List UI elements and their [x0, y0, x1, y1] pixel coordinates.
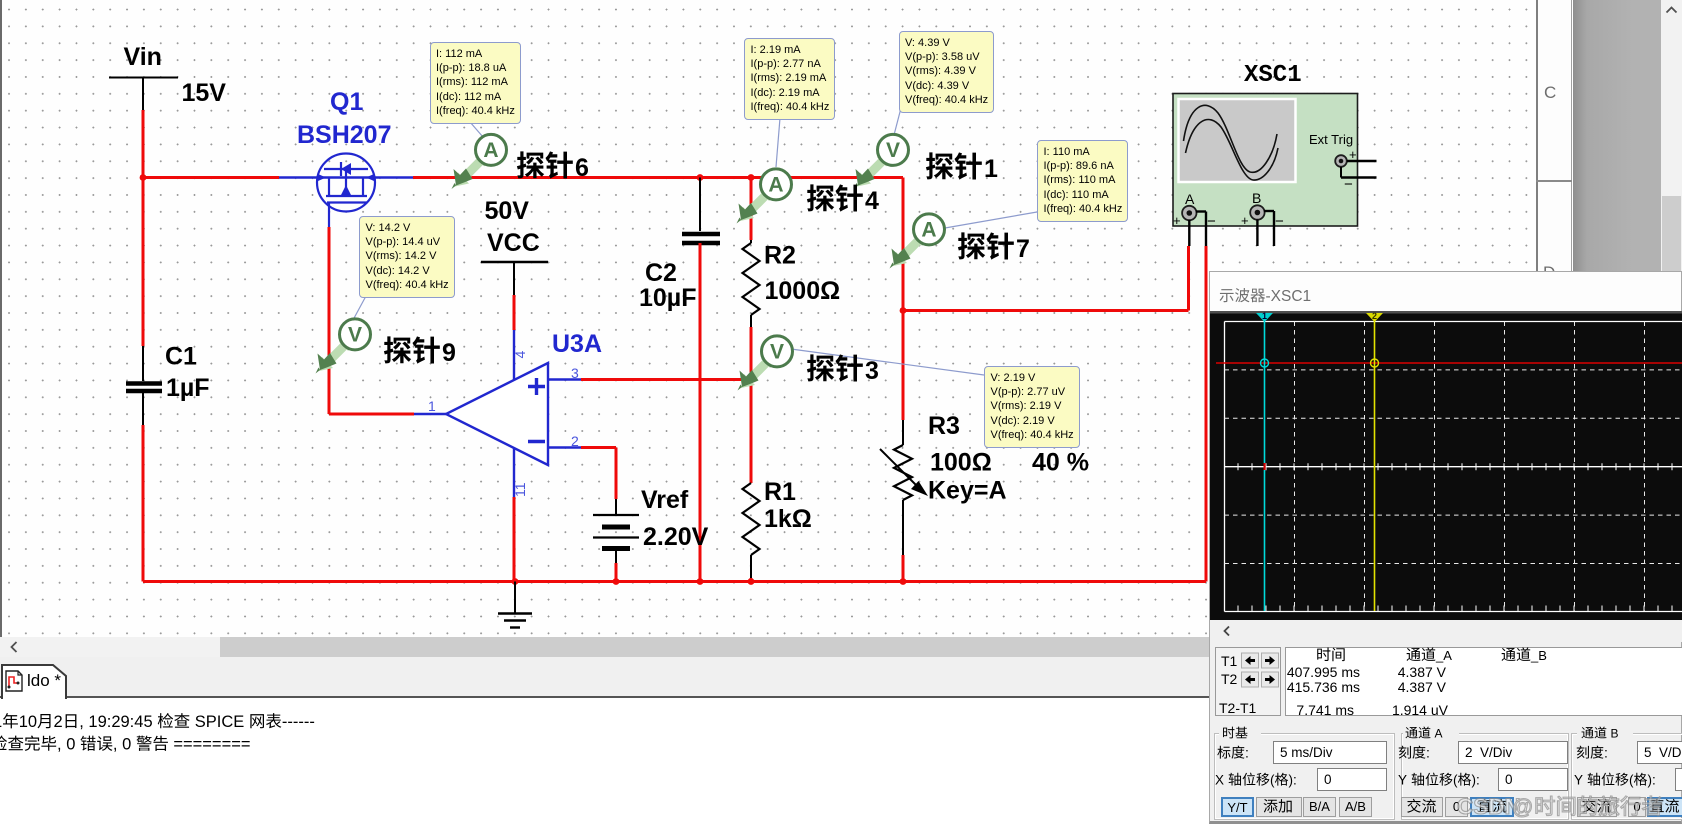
sheet border strip: [1536, 0, 1572, 271]
svg-text:X: X: [1215, 773, 1224, 788]
wire top rail to C2: [697, 174, 704, 231]
svg-text:):: ):: [1289, 773, 1297, 788]
wire scope node to R3: [902, 311, 905, 446]
power source Vin: [109, 78, 178, 111]
wire op-amp pin 11 to ground rail: [513, 497, 516, 582]
svg-text:4: 4: [865, 187, 879, 215]
label C1: [165, 343, 197, 371]
svg-text:-XSC1: -XSC1: [1266, 288, 1312, 305]
probe label 7: [958, 232, 1030, 263]
svg-text:1: 1: [0, 713, 2, 731]
svg-text:@: @: [1512, 796, 1533, 819]
measurement tooltip probe 7: [1037, 140, 1128, 222]
ground: [498, 582, 532, 628]
pin number 2: [571, 433, 579, 449]
label R3: [928, 412, 960, 440]
label C2: [645, 259, 677, 287]
sheet tab ldo: [0, 660, 80, 700]
probe label 4: [807, 184, 879, 215]
leader line probe 3: [791, 349, 984, 375]
oscilloscope dialog: [1209, 271, 1682, 824]
measurement tooltip probe 1: [899, 31, 995, 113]
watermark: [1457, 794, 1662, 819]
value label Key=A: [928, 477, 1007, 505]
value label 50V: [485, 197, 530, 225]
probe label 9: [384, 336, 456, 367]
svg-text:_A: _A: [1435, 648, 1452, 663]
battery Vref: [593, 499, 639, 563]
wire node A to C1: [142, 178, 145, 382]
svg-text:(: (: [1270, 773, 1275, 788]
wire C1 to ground rail: [142, 391, 144, 582]
svg-text:,: ,: [113, 736, 118, 754]
resistor R2: [743, 243, 760, 327]
probe 6 (current): [452, 134, 507, 189]
value label BSH207: [297, 121, 392, 149]
resistor R1: [743, 483, 760, 578]
probe 9 (voltage): [316, 319, 371, 374]
value label 2.20V: [643, 523, 709, 551]
label VCC: [487, 229, 540, 257]
wire op-amp pin 3 to node B: [581, 378, 751, 381]
value label 40 %: [1032, 449, 1089, 477]
label R2: [764, 242, 796, 270]
svg-text::: :: [1604, 745, 1608, 761]
node C junction (scope tap): [900, 307, 907, 314]
label XSC1: [1244, 62, 1302, 89]
probe 4 (current): [737, 169, 792, 224]
wire top rail to R2: [748, 174, 755, 243]
value label 1kohm: [764, 505, 812, 533]
probe label 3: [807, 354, 879, 385]
probe label 6: [517, 151, 589, 182]
leader line probe 9: [353, 296, 366, 320]
leader line probe 7: [945, 212, 1037, 228]
op-amp U3A: [414, 330, 581, 497]
svg-text:,: ,: [79, 713, 84, 731]
value label 15V: [182, 79, 227, 107]
leader line probe 1: [894, 108, 901, 135]
probe 7 (current): [890, 214, 945, 269]
value label 100ohm: [930, 449, 992, 477]
tab bar: [0, 657, 1682, 698]
svg-text:------: ------: [282, 713, 315, 731]
svg-text:2: 2: [54, 713, 63, 731]
svg-text::: :: [1426, 745, 1430, 761]
wire VCC to op-amp pin 4: [513, 295, 516, 330]
svg-text:10: 10: [19, 713, 37, 731]
svg-text:(: (: [1629, 773, 1634, 788]
value label 10uF: [639, 284, 696, 312]
probe 3 (voltage): [738, 336, 793, 391]
status message area: [0, 699, 1209, 824]
svg-text:6: 6: [575, 154, 589, 182]
oscilloscope XSC1 instrument icon: [1173, 94, 1377, 247]
pin number 1: [428, 398, 436, 414]
svg-text:B: B: [1611, 727, 1619, 741]
svg-text:19:29:45: 19:29:45: [88, 713, 152, 731]
wire scope channel A to node C: [903, 246, 1189, 311]
power symbol VCC: [481, 262, 548, 295]
potentiometer R3: [880, 445, 928, 555]
node B junction: [748, 376, 755, 383]
measurement tooltip probe 4: [744, 38, 835, 120]
wire C2 to ground rail: [699, 243, 702, 582]
label Vin: [124, 43, 162, 71]
svg-text:(: (: [1453, 773, 1458, 788]
wire top rail: [143, 178, 903, 311]
vertical scrollbar: [1661, 0, 1682, 271]
svg-text:========: ========: [173, 736, 250, 754]
capacitor C1: [126, 384, 162, 392]
gray workspace: [1573, 0, 1661, 271]
wire Vin to node A: [142, 110, 145, 178]
svg-text:Y: Y: [1574, 773, 1583, 788]
svg-text:,: ,: [57, 736, 62, 754]
measurement tooltip probe 9: [359, 216, 455, 298]
label U3A: [552, 330, 602, 358]
measurement tooltip probe 3: [984, 366, 1080, 448]
svg-text:0: 0: [66, 736, 75, 754]
label R1: [764, 478, 796, 506]
wire scope A- to ground rail: [1205, 246, 1208, 582]
svg-text:0: 0: [122, 736, 131, 754]
probe 1 (voltage): [854, 134, 909, 189]
transistor Q1 BSH207 (p-MOSFET): [279, 154, 413, 228]
pin number 3: [571, 365, 579, 381]
pin number 11: [512, 482, 528, 497]
capacitor C2: [682, 234, 720, 243]
measurement tooltip probe 6: [430, 42, 521, 124]
wire Q1 gate to op-amp output: [329, 227, 414, 414]
wire ground rail: [143, 578, 1206, 585]
wire node B to R1: [750, 380, 753, 484]
leader line probe 6: [470, 122, 483, 137]
wire op-amp pin 2 to Vref: [581, 448, 616, 500]
value label 1uF: [166, 374, 210, 402]
leader line probe 4: [776, 118, 780, 167]
node A junction: [140, 174, 147, 181]
value label 1000ohm: [765, 277, 841, 305]
wire R2 to node B: [750, 327, 753, 380]
wire R3 to ground rail: [900, 555, 907, 585]
wire Vref to ground rail: [615, 563, 618, 582]
svg-text::: :: [1245, 745, 1249, 761]
svg-text:9: 9: [442, 339, 456, 367]
svg-text:A: A: [1435, 727, 1443, 741]
horizontal scrollbar: [0, 637, 1537, 657]
wire R1 to ground rail: [748, 578, 755, 585]
svg-text:7: 7: [1016, 235, 1030, 263]
svg-text:SPICE: SPICE: [195, 713, 245, 731]
svg-text:1: 1: [984, 155, 998, 183]
svg-text:Y: Y: [1398, 773, 1407, 788]
label Q1: [330, 88, 363, 116]
svg-text:3: 3: [865, 357, 879, 385]
svg-text:):: ):: [1648, 773, 1656, 788]
pin number 4: [512, 351, 528, 359]
svg-text:_B: _B: [1530, 648, 1547, 663]
status line 1: [0, 713, 315, 731]
svg-text:):: ):: [1472, 773, 1480, 788]
status line 2: [0, 735, 250, 753]
label Vref: [641, 486, 689, 514]
probe label 1: [926, 152, 998, 183]
